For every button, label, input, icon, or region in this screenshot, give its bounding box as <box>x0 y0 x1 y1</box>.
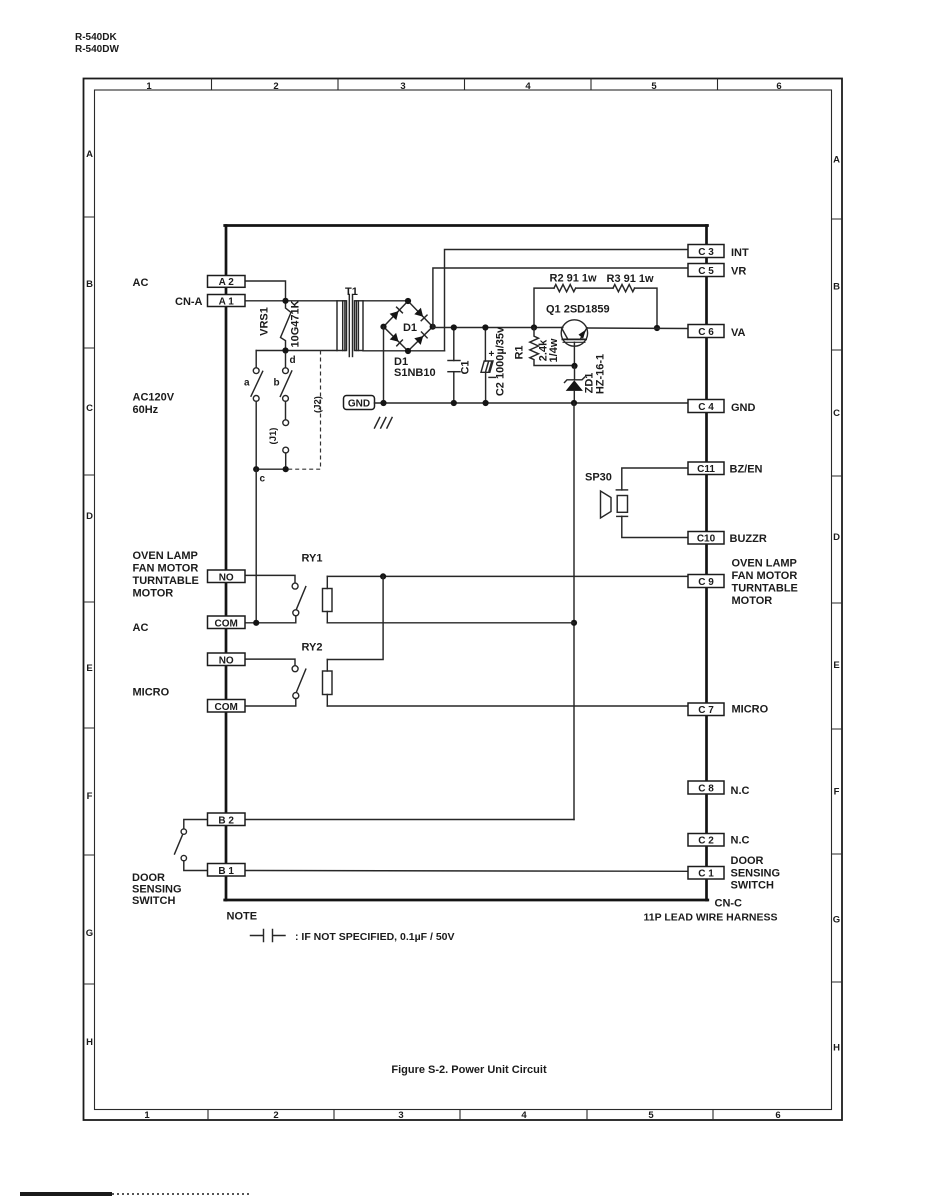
bridge diode arrow bottom-left <box>390 333 399 342</box>
connector pin C6 <box>688 325 724 338</box>
svg-text:R2 91 1w: R2 91 1w <box>550 273 598 285</box>
capacitor C1 <box>453 328 455 361</box>
svg-text:G: G <box>833 915 840 926</box>
connector pin C9 <box>688 575 724 588</box>
wire buzzer to C11 <box>622 468 688 490</box>
wire switch b to jumper J1 <box>285 401 287 419</box>
svg-text:R3 91 1w: R3 91 1w <box>607 273 655 285</box>
connector pin C1 <box>688 867 724 880</box>
wire varistor bottom rail to transformer primary bottom <box>256 350 337 352</box>
wire secondary top to bridge top <box>363 300 408 302</box>
svg-text:1: 1 <box>144 1110 150 1121</box>
wire node c down to AC COM rail <box>255 469 257 623</box>
node d <box>282 347 288 353</box>
C2 polarity minus <box>489 376 496 378</box>
svg-text:3: 3 <box>398 1110 403 1121</box>
capacitor C2 electrolytic <box>484 328 486 362</box>
svg-text:Figure S-2. Power Unit Circuit: Figure S-2. Power Unit Circuit <box>391 1064 547 1076</box>
transformer T1 primary winding <box>337 301 347 351</box>
node R2 left leg on VA rail <box>531 324 537 330</box>
wire RY1 coil to C9 <box>327 575 688 577</box>
svg-text:1/4w: 1/4w <box>548 338 560 362</box>
node C1 bottom <box>451 400 457 406</box>
svg-text:HZ-16-1: HZ-16-1 <box>595 354 607 394</box>
svg-text:C1: C1 <box>459 360 471 374</box>
connector pin NO relay2 <box>208 653 246 666</box>
connector pin B1 <box>208 864 246 877</box>
jumper J1 open contacts <box>283 420 289 426</box>
svg-text:D: D <box>833 532 840 543</box>
svg-text:E: E <box>833 660 839 671</box>
svg-text:H: H <box>86 1037 93 1048</box>
svg-text:C2 1000µ/35v: C2 1000µ/35v <box>495 326 507 396</box>
bridge diode arrow top-right <box>414 308 423 317</box>
svg-text:: IF NOT SPECIFIED, 0.1µF / 5: : IF NOT SPECIFIED, 0.1µF / 50V <box>295 931 455 943</box>
connector pin NO relay1 <box>208 570 246 583</box>
wire Q1 collector to C6 <box>588 327 688 330</box>
buzzer SP30 element <box>616 489 627 491</box>
wire d rail down to switch a <box>255 351 257 368</box>
connector pin C7 <box>688 703 724 716</box>
svg-text:H: H <box>833 1043 840 1054</box>
svg-text:SP30: SP30 <box>585 472 612 484</box>
svg-text:C: C <box>833 408 840 419</box>
svg-text:c: c <box>260 474 266 485</box>
bridge diode arrow top-left <box>390 311 399 320</box>
svg-text:DOOR: DOOR <box>132 872 165 884</box>
svg-text:GND: GND <box>731 402 756 414</box>
connector pin A2 <box>208 276 246 288</box>
border right tick marks <box>832 219 843 982</box>
svg-text:TURNTABLE: TURNTABLE <box>133 575 199 587</box>
svg-text:SENSING: SENSING <box>132 884 182 896</box>
relay RY1 coil <box>323 589 333 612</box>
wire B1 to C1 <box>245 870 688 873</box>
PWB outline left bus <box>225 226 228 901</box>
varistor VRS1 10G471K <box>281 301 292 351</box>
svg-text:D: D <box>86 511 93 522</box>
connector pin C5 <box>688 264 724 277</box>
svg-text:d: d <box>290 355 296 366</box>
node bridge top <box>405 298 411 304</box>
wire node c horizontal <box>256 468 286 470</box>
svg-text:C 4: C 4 <box>698 402 714 413</box>
svg-text:BUZZR: BUZZR <box>730 533 767 545</box>
node c <box>253 466 259 472</box>
C2 hatched plate <box>481 361 493 372</box>
connector pin C11 <box>688 462 724 475</box>
svg-text:CN-C: CN-C <box>715 898 743 910</box>
svg-text:C 7: C 7 <box>698 705 714 716</box>
wire B2 to ZD1 rail <box>245 819 574 821</box>
svg-text:B 1: B 1 <box>218 866 234 877</box>
border left tick marks <box>84 217 95 984</box>
wire VR line to C5 <box>433 268 688 327</box>
wire COM1 to contact <box>245 616 296 623</box>
svg-text:4: 4 <box>521 1110 527 1121</box>
svg-text:SWITCH: SWITCH <box>132 895 175 907</box>
connector pin C2 <box>688 834 724 847</box>
svg-text:FAN MOTOR: FAN MOTOR <box>133 563 199 575</box>
wire INT line to C3 <box>445 249 689 350</box>
svg-text:C11: C11 <box>697 464 715 475</box>
node bridge right <box>430 324 436 330</box>
svg-text:C 1: C 1 <box>698 869 714 880</box>
node ZD1 rail AC rail junction <box>571 620 577 626</box>
wire VA rail bridge to Q1 base <box>433 327 563 329</box>
PWB outline right bus CN-C line <box>705 226 708 901</box>
PWB outline bottom wire <box>225 899 708 902</box>
svg-text:CN-A: CN-A <box>175 296 203 308</box>
node AC rail c-wire junction <box>253 620 259 626</box>
Q1 emitter lead <box>573 342 575 366</box>
svg-text:OVEN LAMP: OVEN LAMP <box>133 550 198 562</box>
svg-text:2: 2 <box>273 81 278 92</box>
svg-text:SWITCH: SWITCH <box>731 880 774 892</box>
GND label box <box>344 396 375 410</box>
wire J1 to node c <box>285 453 287 469</box>
resistor R3 zigzag <box>613 285 635 292</box>
svg-text:N.C: N.C <box>731 785 750 797</box>
resistor R2 zigzag <box>554 285 576 292</box>
svg-text:4: 4 <box>525 81 531 92</box>
svg-text:C 3: C 3 <box>698 247 714 258</box>
svg-text:(J2): (J2) <box>313 396 324 413</box>
border bottom tick marks <box>208 1110 713 1121</box>
node c right junction <box>283 466 289 472</box>
svg-text:MOTOR: MOTOR <box>133 588 174 600</box>
svg-text:AC120V: AC120V <box>133 392 175 404</box>
relay RY2 coil <box>323 671 333 695</box>
svg-text:INT: INT <box>731 247 749 259</box>
svg-text:AC: AC <box>133 277 149 289</box>
svg-text:E: E <box>86 663 92 674</box>
node ZD1 ground junction <box>571 400 577 406</box>
interlock switch a <box>253 368 259 374</box>
svg-text:C 2: C 2 <box>698 836 714 847</box>
svg-text:R-540DK: R-540DK <box>75 32 117 43</box>
svg-text:B: B <box>86 279 93 290</box>
Q1 collector lead with arrow <box>580 328 587 340</box>
wire A1 to transformer primary top <box>245 300 337 302</box>
node R3 right leg on VA rail <box>654 325 660 331</box>
ground rail to C4 <box>375 402 689 404</box>
earth symbol <box>375 418 393 429</box>
svg-text:S1NB10: S1NB10 <box>394 367 436 379</box>
svg-text:C 9: C 9 <box>698 577 714 588</box>
svg-text:6: 6 <box>775 1110 780 1121</box>
PWB outline top wire <box>225 224 708 227</box>
node C2 bottom <box>483 400 489 406</box>
svg-text:F: F <box>87 791 93 802</box>
resistor R2 R3 series branch <box>534 288 554 327</box>
svg-text:A 2: A 2 <box>219 277 235 288</box>
transformer T1 core <box>348 295 350 357</box>
node ground-bridge junction <box>380 400 386 406</box>
border top tick marks <box>212 79 718 91</box>
dashed jumper J2 wire <box>287 351 321 470</box>
svg-text:10G471K: 10G471K <box>290 300 302 347</box>
drawing border outer frame <box>84 79 843 1121</box>
connector pin COM relay2 <box>208 700 246 713</box>
svg-text:VRS1: VRS1 <box>259 307 271 336</box>
svg-text:FAN MOTOR: FAN MOTOR <box>732 570 798 582</box>
svg-text:OVEN LAMP: OVEN LAMP <box>732 558 797 570</box>
svg-text:1: 1 <box>146 81 152 92</box>
svg-text:NOTE: NOTE <box>227 911 258 923</box>
wire coil link vertical <box>327 576 383 659</box>
resistor R1 2.4k 1/4w <box>530 328 575 366</box>
wire A2 to varistor node <box>245 281 286 301</box>
svg-text:T1: T1 <box>345 286 358 298</box>
svg-text:NO: NO <box>219 572 234 583</box>
svg-text:(J1): (J1) <box>268 428 279 445</box>
wire buzzer to C10 <box>622 516 688 537</box>
wire bridge left to ground rail <box>383 327 385 403</box>
connector pin C8 <box>688 781 724 794</box>
wire secondary bottom to bridge bottom and INT elbow <box>363 350 445 352</box>
svg-text:Q1 2SD1859: Q1 2SD1859 <box>546 304 610 316</box>
wire RY2 coil to C7 MICRO line <box>327 705 688 707</box>
svg-text:3: 3 <box>400 81 405 92</box>
connector pin C3 <box>688 245 724 258</box>
drawing border inner frame <box>95 90 832 1110</box>
svg-text:G: G <box>86 928 93 939</box>
svg-text:AC: AC <box>133 622 149 634</box>
svg-text:C 8: C 8 <box>698 784 714 795</box>
wire RY1 coil bottom AC rail <box>327 622 574 624</box>
transistor Q1 2SD1859 <box>561 320 587 346</box>
node bridge left <box>380 324 386 330</box>
svg-text:b: b <box>274 378 280 389</box>
door sensing switch <box>184 820 208 829</box>
connector pin C10 <box>688 532 724 545</box>
svg-text:C 6: C 6 <box>698 327 714 338</box>
svg-text:NO: NO <box>219 655 234 666</box>
svg-text:BZ/EN: BZ/EN <box>730 464 763 476</box>
svg-text:C10: C10 <box>697 534 716 545</box>
svg-text:VR: VR <box>731 266 746 278</box>
svg-text:COM: COM <box>215 618 238 629</box>
svg-text:RY1: RY1 <box>302 553 323 565</box>
wire ZD1 rail down to B2 corner <box>573 403 575 820</box>
svg-text:a: a <box>244 378 250 389</box>
svg-text:D1: D1 <box>403 322 417 334</box>
svg-text:A 1: A 1 <box>219 296 235 307</box>
interlock switch b <box>285 353 287 368</box>
svg-text:B: B <box>833 282 840 293</box>
connector pin C4 <box>688 400 724 413</box>
wire switch a to node c <box>255 401 257 469</box>
svg-text:MOTOR: MOTOR <box>732 595 773 607</box>
connector pin COM relay1 <box>208 616 246 629</box>
svg-text:5: 5 <box>648 1110 654 1121</box>
bridge diode arrow bottom-right <box>414 336 423 345</box>
svg-text:MICRO: MICRO <box>133 687 170 699</box>
svg-text:A: A <box>833 155 840 166</box>
svg-text:60Hz: 60Hz <box>133 404 159 416</box>
svg-text:R1: R1 <box>514 345 526 359</box>
node C2 top <box>482 324 488 330</box>
scan smudge bottom left <box>20 1192 112 1196</box>
buzzer SP30 horn <box>601 491 612 518</box>
relay RY2 contact <box>245 659 295 666</box>
node C1 top <box>451 324 457 330</box>
note capacitor symbol <box>251 930 286 942</box>
svg-text:5: 5 <box>651 81 657 92</box>
svg-text:11P LEAD WIRE HARNESS: 11P LEAD WIRE HARNESS <box>644 912 778 924</box>
svg-text:GND: GND <box>348 399 370 410</box>
svg-text:6: 6 <box>776 81 781 92</box>
node R1-emitter junction <box>571 363 577 369</box>
relay RY1 contact <box>245 575 295 583</box>
svg-text:VA: VA <box>731 327 746 339</box>
node bridge bottom <box>405 348 411 354</box>
svg-text:B 2: B 2 <box>218 815 234 826</box>
connector pin B2 <box>208 813 246 826</box>
node RY1-RY2 coil link <box>380 573 386 579</box>
svg-text:2: 2 <box>273 1110 278 1121</box>
svg-text:R-540DW: R-540DW <box>75 44 119 55</box>
svg-text:N.C: N.C <box>731 835 750 847</box>
svg-text:DOOR: DOOR <box>731 855 764 867</box>
wire COM2 to contact <box>245 699 296 706</box>
zener diode ZD1 HZ-16-1 <box>574 366 576 379</box>
bridge rectifier D1 S1NB10 diamond <box>384 301 433 351</box>
svg-text:A: A <box>86 149 93 160</box>
svg-text:C: C <box>86 403 93 414</box>
svg-text:COM: COM <box>215 702 238 713</box>
node A2-varistor junction <box>282 298 288 304</box>
connector pin A1 <box>208 295 246 307</box>
svg-text:SENSING: SENSING <box>731 868 781 880</box>
svg-text:TURNTABLE: TURNTABLE <box>732 583 798 595</box>
svg-text:RY2: RY2 <box>302 642 323 654</box>
svg-text:MICRO: MICRO <box>732 704 769 716</box>
svg-text:C 5: C 5 <box>698 266 714 277</box>
transformer T1 secondary winding <box>355 301 364 351</box>
svg-text:F: F <box>834 787 840 798</box>
